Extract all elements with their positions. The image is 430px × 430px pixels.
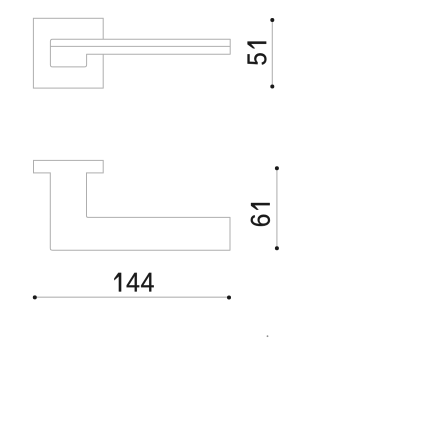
dimension 61: line bbox=[276, 168, 278, 248]
front view: lever mid edge line bbox=[50, 45, 230, 47]
dimension 144: label bbox=[114, 273, 153, 292]
stray small dot bbox=[267, 335, 269, 337]
dimension 61: label bbox=[251, 203, 270, 226]
dimension 51: label bbox=[248, 42, 267, 65]
dimension 61: bottom dot bbox=[275, 246, 279, 250]
dimension 144: right dot bbox=[227, 296, 231, 300]
dimension 51: bottom dot bbox=[270, 85, 274, 89]
dimension 144: left dot bbox=[33, 295, 37, 299]
front view: lever handle outline bbox=[50, 39, 230, 67]
dimension 51: line bbox=[271, 20, 273, 87]
dimension 144: line bbox=[35, 296, 229, 298]
dimension 51: top dot bbox=[270, 18, 274, 22]
side view: rosette plate bbox=[34, 160, 104, 173]
side view: joint cover bbox=[51, 171, 86, 174]
side view: lever L-profile bbox=[50, 173, 230, 251]
front view: square rosette bbox=[33, 18, 103, 88]
dimension 61: top dot bbox=[275, 166, 279, 170]
